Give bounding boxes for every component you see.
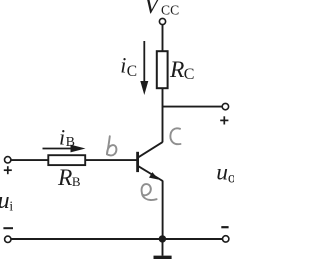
svg-text:u: u [0, 188, 10, 214]
svg-text:B: B [66, 135, 75, 150]
svg-text:u: u [216, 160, 228, 186]
svg-text:R: R [169, 57, 184, 83]
svg-text:R: R [57, 165, 72, 191]
svg-text:C: C [127, 63, 137, 80]
svg-text:i: i [120, 52, 126, 77]
svg-text:CC: CC [161, 3, 179, 18]
svg-text:i: i [9, 199, 13, 214]
svg-text:i: i [59, 124, 65, 149]
svg-text:o: o [228, 170, 234, 187]
svg-text:B: B [72, 174, 81, 189]
svg-text:C: C [184, 66, 195, 83]
